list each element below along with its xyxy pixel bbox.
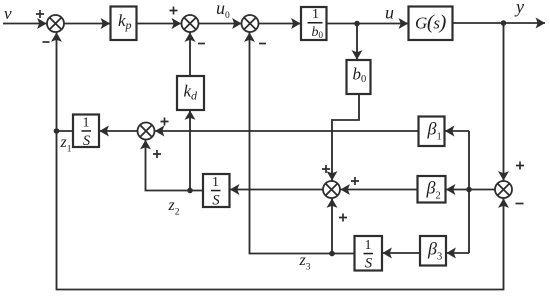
wire branch vertical: [468, 131, 470, 253]
sign plus J4 right: [161, 118, 169, 126]
wire 1/b0 to G(s): [327, 23, 409, 25]
sign plus J5 right: [351, 177, 359, 185]
block kp: [111, 7, 137, 41]
wire v input arrow: [3, 23, 47, 25]
wire b2 to J5: [341, 189, 418, 191]
block integrator z2: [203, 174, 230, 207]
wire kd up to J2: [189, 33, 191, 77]
wire z1 down across bottom up to J6: [57, 131, 504, 290]
svg-text:z3: z3: [299, 252, 311, 273]
svg-text:u0: u0: [216, 0, 230, 21]
svg-text:z1: z1: [60, 134, 72, 155]
sign plus J4 bottom: [153, 150, 161, 158]
block integrator z3: [355, 236, 383, 271]
svg-text:1: 1: [312, 7, 319, 22]
summing junction J4: [138, 123, 155, 140]
wire b1 to J4: [155, 130, 419, 132]
sign minus J3: [259, 43, 266, 45]
node z1 dot: [54, 128, 60, 134]
block G(s): [409, 7, 453, 41]
wire z3 feedback up to J3: [250, 33, 333, 254]
wire integrator z3 out to node: [332, 253, 355, 255]
wire u node down to b0: [356, 24, 358, 60]
summing junction J1: [47, 15, 64, 32]
summing junction J5: [323, 181, 340, 198]
block integrator z1: [73, 115, 99, 148]
wire b3 to integrator z3: [383, 252, 421, 254]
wire y node down to J6: [503, 23, 505, 181]
wire J6 output to branch node: [469, 189, 496, 191]
wire integrator z1 out to node: [57, 130, 74, 132]
summing junction J2: [182, 15, 199, 32]
svg-text:1: 1: [212, 175, 219, 190]
wire J2 to J3 (u0): [199, 23, 242, 25]
wire J4 to integrator z1: [100, 130, 138, 132]
sign plus J1: [36, 10, 44, 18]
node e branch dot: [466, 187, 472, 193]
node y dot: [501, 20, 507, 26]
node z3 dot: [329, 251, 335, 257]
block beta2: [418, 176, 446, 203]
block b0: [347, 60, 371, 94]
label 1/S z3 fraction: [364, 238, 374, 272]
wire z2 node up to kd: [189, 111, 191, 191]
wire b0 output jog down to J5: [332, 94, 359, 181]
node u dot: [354, 21, 360, 27]
wire kp to J2: [137, 23, 182, 25]
svg-text:v: v: [4, 4, 12, 23]
wire branch to b1: [445, 130, 469, 132]
wire z3 node up to J5: [331, 199, 333, 254]
svg-text:1: 1: [365, 238, 372, 253]
sign plus J5 top: [322, 165, 330, 173]
sign minus J2: [198, 43, 205, 45]
wire J3 to 1/b0: [259, 23, 301, 25]
svg-text:u: u: [385, 3, 394, 23]
wire branch to b2: [446, 189, 469, 191]
wire J5 to integrator z2: [230, 189, 323, 191]
block 1/b0: [301, 7, 327, 40]
label 1/b0 fraction: [308, 7, 324, 40]
svg-text:S: S: [365, 256, 373, 272]
svg-text:S: S: [83, 133, 91, 149]
wire z1 up to J1: [56, 33, 58, 132]
sign plus J5 bottom: [339, 214, 347, 222]
label 1/S z1 fraction: [82, 116, 92, 150]
wire J1 to kp: [64, 23, 110, 25]
summing junction J3: [242, 15, 259, 32]
svg-text:z2: z2: [168, 197, 180, 218]
wire branch to b3: [447, 252, 470, 254]
node z2 dot: [187, 188, 193, 194]
sign minus J1: [43, 41, 50, 43]
sign plus J6: [516, 162, 524, 170]
summing junction J6: [495, 181, 512, 198]
svg-text:G(s): G(s): [415, 12, 447, 34]
wire z2 out to J4: [146, 140, 204, 191]
wire G(s) to output y: [453, 22, 546, 24]
svg-text:y: y: [514, 0, 524, 17]
block beta1: [419, 117, 445, 147]
sign plus J2: [170, 7, 178, 15]
label 1/S z2 fraction: [211, 175, 221, 209]
sign minus J6: [516, 203, 524, 205]
svg-text:S: S: [212, 193, 220, 209]
block kd: [177, 76, 204, 110]
svg-text:1: 1: [83, 116, 90, 131]
block beta3: [420, 236, 446, 266]
